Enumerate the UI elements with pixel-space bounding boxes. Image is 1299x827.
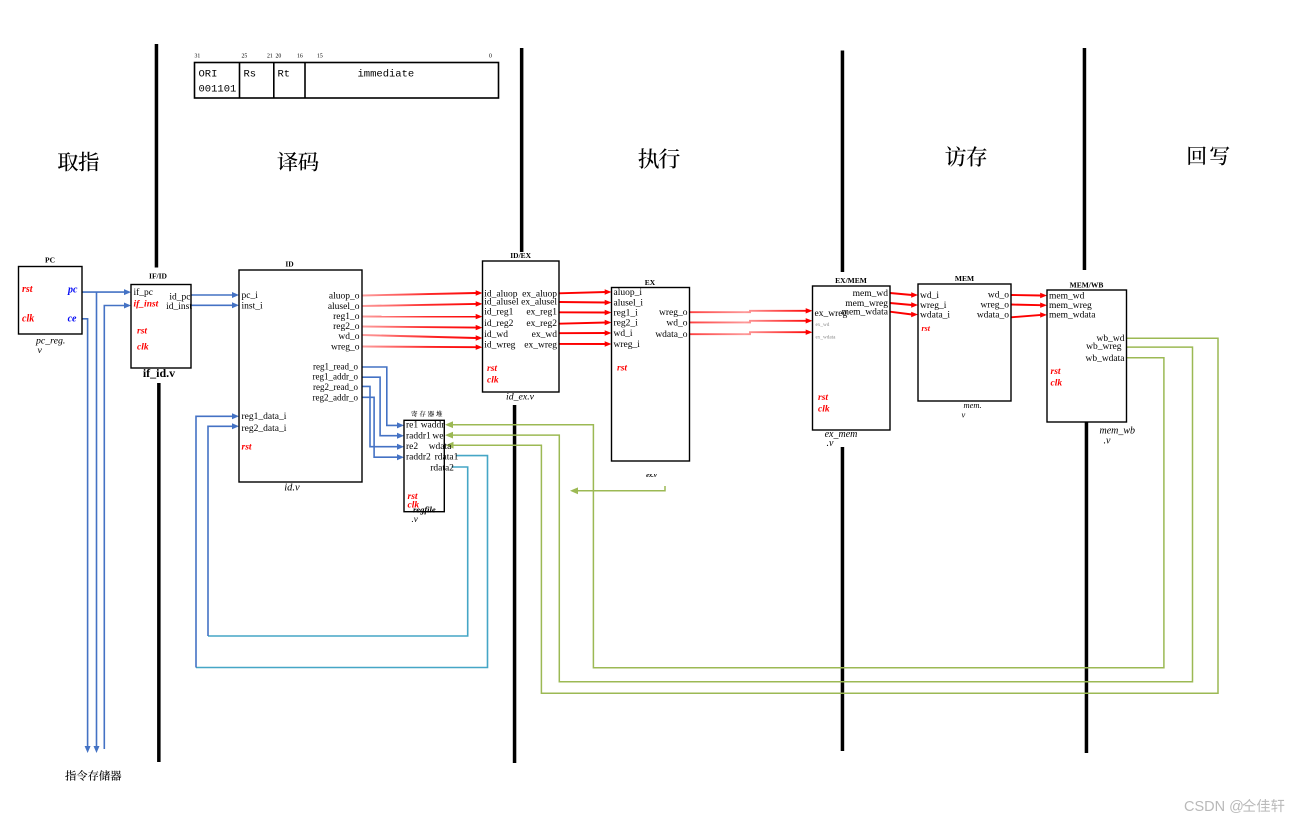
- ID pin reg2_data_i: [242, 424, 287, 434]
- wire wdata_o -> ex_wdata: [690, 330, 813, 335]
- svg-text:25: 25: [242, 54, 248, 60]
- svg-text:id_wreg: id_wreg: [484, 341, 515, 351]
- MEM/WB pin wb_wd: [1097, 334, 1125, 344]
- EX/MEM box title: [835, 276, 867, 285]
- EX pin rst: [617, 364, 627, 374]
- svg-text:reg1_data_i: reg1_data_i: [242, 412, 287, 422]
- wire ce down to instruction ROM: [82, 319, 91, 753]
- stage label 访存 (memory access): [945, 146, 986, 166]
- stage label 执行 (execute): [638, 148, 679, 168]
- ID/EX pin ex_alusel: [521, 297, 557, 307]
- PC file label pc_reg.v: [35, 335, 65, 356]
- MEM/WB pin clk: [1051, 379, 1063, 389]
- wire wb_wd -> regfile wdata (green feedback): [446, 338, 1219, 693]
- EX/MEM pin ex_wreg: [815, 309, 848, 319]
- MEM box title: [955, 274, 974, 283]
- svg-text:wreg_i: wreg_i: [920, 301, 947, 311]
- svg-text:MEM: MEM: [955, 274, 974, 283]
- svg-text:wdata: wdata: [429, 442, 452, 452]
- ID box title: [285, 260, 294, 269]
- svg-text:ex_wd: ex_wd: [816, 322, 830, 328]
- wire ex_reg1 -> reg1_i: [559, 310, 612, 315]
- EX pin reg1_i: [614, 309, 639, 319]
- ID pin wreg_o: [331, 343, 360, 353]
- ID pin inst_i: [242, 302, 263, 312]
- svg-text:EX: EX: [645, 278, 656, 287]
- wire wreg_o -> mem_wreg: [1011, 303, 1047, 308]
- regfile box title 寄存器堆: [411, 411, 442, 417]
- Rs field cell: [244, 69, 257, 81]
- IF/ID pin rst: [137, 327, 147, 337]
- regfile pin rdata1: [435, 453, 459, 463]
- svg-text:reg1_o: reg1_o: [333, 312, 360, 322]
- wire reg1_addr_o -> raddr1: [362, 377, 404, 439]
- svg-text:wd_o: wd_o: [666, 319, 687, 329]
- ID pin alusel_o: [328, 302, 360, 312]
- svg-text:ex.v: ex.v: [646, 472, 657, 479]
- svg-text:0: 0: [489, 54, 492, 60]
- svg-text:rst: rst: [137, 327, 147, 337]
- MEM/WB pin wb_wdata: [1085, 354, 1125, 364]
- svg-text:reg2_o: reg2_o: [333, 322, 360, 332]
- EX/MEM pin mem_wreg: [845, 299, 888, 309]
- EX pin wreg_o: [659, 308, 688, 318]
- stage divider line EX/MEM boundary: [841, 51, 845, 752]
- wire reg1_o -> id_reg1: [362, 314, 483, 319]
- wire rdata1 loop blue riser into reg1_data_i: [196, 413, 239, 667]
- regfile pin clk: [408, 501, 420, 511]
- svg-text:v: v: [38, 345, 43, 356]
- MEM pin wreg_o: [981, 301, 1010, 311]
- svg-text:rst: rst: [22, 284, 34, 295]
- svg-text:ORI: ORI: [199, 69, 218, 81]
- svg-text:mem_wdata: mem_wdata: [1049, 311, 1096, 321]
- MEM/WB pin rst: [1051, 367, 1061, 377]
- svg-text:id_inst: id_inst: [166, 302, 192, 312]
- wire mem_wd -> wd_i: [890, 292, 918, 297]
- regfile pin we: [432, 432, 443, 442]
- instruction format table (ORI): [195, 63, 499, 99]
- MEM pin wd_o: [988, 291, 1009, 301]
- svg-text:reg2_read_o: reg2_read_o: [313, 382, 358, 392]
- PC pin rst: [22, 284, 34, 295]
- wire ex_alusel -> alusel_i: [559, 300, 612, 305]
- ID pin reg2_read_o: [313, 382, 358, 392]
- svg-text:mem_wd: mem_wd: [1049, 292, 1085, 302]
- wire reg1_read_o -> re1: [362, 367, 404, 428]
- svg-text:v: v: [962, 410, 966, 420]
- svg-text:wd_i: wd_i: [614, 329, 633, 339]
- wire wdata_o -> mem_wdata: [1011, 312, 1047, 317]
- regfile pin wdata: [429, 442, 452, 452]
- svg-text:immediate: immediate: [358, 69, 415, 81]
- IF/ID pin id_pc: [169, 292, 190, 302]
- wire ex_wreg -> wreg_i: [559, 341, 612, 346]
- decode module ID (id): [239, 270, 362, 482]
- EX/MEM pin mem_wd: [853, 289, 889, 299]
- ID/EX pin ex_reg1: [526, 308, 557, 318]
- svg-text:rst: rst: [487, 364, 497, 374]
- svg-text:re1: re1: [406, 421, 418, 431]
- svg-text:if_pc: if_pc: [134, 287, 154, 298]
- memory access module MEM (mem): [918, 284, 1011, 401]
- svg-text:mem_wreg: mem_wreg: [1049, 301, 1092, 311]
- stray green connector arrow: [570, 486, 665, 494]
- regfile pin raddr1: [406, 432, 431, 442]
- ID/EX pin id_wreg: [484, 341, 515, 351]
- ID pin reg1_read_o: [313, 361, 358, 371]
- svg-text:reg1_read_o: reg1_read_o: [313, 361, 358, 371]
- svg-text:id_wd: id_wd: [484, 330, 508, 340]
- EX/MEM file label ex_mem.v: [825, 429, 858, 449]
- wire mem_wreg -> wreg_i: [890, 302, 918, 307]
- ID/EX box title: [510, 251, 531, 260]
- PC pin clk: [22, 314, 34, 325]
- svg-text:ex_reg2: ex_reg2: [526, 319, 557, 329]
- ID pin reg1_addr_o: [313, 371, 359, 381]
- svg-text:if_inst: if_inst: [134, 299, 159, 309]
- wire wreg_o -> id_wreg: [362, 345, 483, 350]
- IF/ID pin id_inst: [166, 302, 192, 312]
- EX/MEM pin rst: [818, 393, 828, 403]
- wire wd_o -> ex_wd: [690, 318, 813, 323]
- ID/EX pin id_aluop: [484, 290, 517, 300]
- EX pin wdata_o: [655, 330, 687, 340]
- svg-text:rdata1: rdata1: [435, 453, 459, 463]
- svg-text:wd_o: wd_o: [338, 332, 359, 342]
- wire pc -> if_pc: [82, 289, 131, 295]
- ID pin wd_o: [338, 332, 359, 342]
- regfile pin re1: [406, 421, 418, 431]
- svg-text:id_pc: id_pc: [169, 292, 190, 302]
- svg-text:31: 31: [195, 54, 201, 60]
- CSDN watermark: [1184, 799, 1284, 815]
- svg-text:rst: rst: [242, 442, 252, 452]
- svg-text:wd_o: wd_o: [988, 291, 1009, 301]
- wire pc branch down to instruction ROM: [94, 292, 100, 753]
- wire alusel_o -> id_alusel: [362, 301, 483, 306]
- svg-text:raddr1: raddr1: [406, 432, 431, 442]
- MEM file label mem.v: [962, 400, 982, 420]
- svg-text:rst: rst: [922, 324, 931, 333]
- wire id_pc -> pc_i: [191, 292, 239, 298]
- svg-text:clk: clk: [22, 314, 34, 325]
- MEM/WB pin mem_wd: [1049, 292, 1085, 302]
- svg-text:ex_wreg: ex_wreg: [815, 309, 848, 319]
- MEM pin wreg_i: [920, 301, 947, 311]
- pipeline register module MEM/WB (mem_wb): [1047, 290, 1127, 422]
- wire wb_wreg -> regfile we (green feedback): [445, 347, 1193, 682]
- svg-text:15: 15: [317, 54, 323, 60]
- ID/EX pin ex_wreg: [524, 341, 557, 351]
- svg-text:id_alusel: id_alusel: [484, 297, 519, 307]
- svg-text:alusel_o: alusel_o: [328, 302, 360, 312]
- ID pin pc_i: [242, 291, 259, 301]
- svg-text:ce: ce: [68, 314, 77, 325]
- svg-text:aluop_i: aluop_i: [614, 288, 643, 298]
- svg-text:id_ex.v: id_ex.v: [506, 392, 535, 403]
- svg-text:we: we: [432, 432, 443, 442]
- ID pin aluop_o: [329, 292, 360, 302]
- svg-text:.v: .v: [827, 438, 835, 449]
- svg-text:wb_wdata: wb_wdata: [1085, 354, 1125, 364]
- svg-text:PC: PC: [45, 256, 55, 265]
- ID pin reg1_o: [333, 312, 360, 322]
- svg-text:ex_wd: ex_wd: [532, 330, 558, 340]
- immediate field cell: [358, 69, 415, 81]
- IF/ID pin if_pc: [134, 287, 154, 298]
- svg-text:.v: .v: [1104, 436, 1112, 447]
- svg-text:CSDN @: CSDN @: [1184, 799, 1244, 815]
- IF/ID pin if_inst: [134, 299, 159, 309]
- opcode cell ORI 001101: [199, 69, 237, 96]
- svg-text:reg1_i: reg1_i: [614, 309, 639, 319]
- stage divider line ID/EX boundary: [513, 48, 524, 763]
- MEM/WB box title: [1070, 281, 1104, 290]
- svg-text:Rs: Rs: [244, 69, 257, 81]
- svg-text:clk: clk: [487, 376, 499, 386]
- regfile pin re2: [406, 442, 418, 452]
- register module PC (pc_reg): [19, 267, 83, 335]
- svg-text:reg2_addr_o: reg2_addr_o: [313, 392, 359, 402]
- svg-text:clk: clk: [1051, 379, 1063, 389]
- IF/ID pin clk: [137, 342, 149, 352]
- register file module 寄存器堆 (regfile): [404, 420, 444, 511]
- svg-text:if_id.v: if_id.v: [143, 366, 175, 380]
- svg-text:ID: ID: [285, 260, 294, 269]
- svg-text:ex_wreg: ex_wreg: [524, 341, 557, 351]
- MEM/WB pin mem_wdata: [1049, 311, 1096, 321]
- PC pin ce: [68, 314, 77, 325]
- svg-text:id.v: id.v: [284, 483, 300, 494]
- svg-text:aluop_o: aluop_o: [329, 292, 360, 302]
- ID/EX pin id_wd: [484, 330, 508, 340]
- svg-text:pc: pc: [67, 285, 78, 296]
- stage label 译码 (decode): [277, 152, 318, 172]
- EX box title: [645, 278, 656, 287]
- EX pin wd_o: [666, 319, 687, 329]
- ID/EX pin id_reg2: [484, 319, 513, 329]
- svg-text:IF/ID: IF/ID: [149, 272, 168, 281]
- ID/EX pin ex_reg2: [526, 319, 557, 329]
- pipeline register module ID/EX (id_ex): [483, 261, 560, 392]
- svg-text:001101: 001101: [199, 84, 237, 96]
- wire inst from ROM up to if_inst: [104, 303, 131, 750]
- pipeline register module EX/MEM (ex_mem): [813, 286, 891, 430]
- wire id_inst -> inst_i: [191, 302, 239, 308]
- stage divider line MEM/WB boundary: [1083, 48, 1089, 753]
- svg-text:clk: clk: [818, 405, 830, 415]
- EX pin alusel_i: [614, 299, 644, 309]
- wire ex_reg2 -> reg2_i: [559, 320, 612, 325]
- MEM/WB pin wb_wreg: [1086, 342, 1122, 352]
- MEM pin rst: [922, 324, 931, 333]
- pipeline register module IF/ID (if_id): [131, 285, 191, 369]
- EX file label ex.v: [646, 472, 657, 479]
- svg-text:id_reg1: id_reg1: [484, 308, 513, 318]
- svg-text:re2: re2: [406, 442, 418, 452]
- svg-text:wdata_o: wdata_o: [977, 311, 1009, 321]
- wire ex_aluop -> aluop_i: [559, 289, 612, 294]
- svg-text:raddr2: raddr2: [406, 453, 431, 463]
- svg-text:reg1_addr_o: reg1_addr_o: [313, 371, 359, 381]
- wire reg2_o -> id_reg2: [362, 325, 483, 330]
- wire reg2_addr_o -> raddr2: [362, 397, 404, 460]
- svg-text:mem_wdata: mem_wdata: [842, 308, 889, 318]
- stage divider line IF (取指/译码 boundary): [155, 44, 161, 762]
- svg-text:ex_wdata: ex_wdata: [816, 335, 837, 341]
- ID/EX pin ex_aluop: [522, 290, 557, 300]
- MEM/WB file label mem_wb.v: [1100, 426, 1136, 447]
- svg-text:regfile: regfile: [413, 504, 436, 514]
- svg-text:rdata2: rdata2: [430, 464, 454, 474]
- svg-text:alusel_i: alusel_i: [614, 299, 644, 309]
- svg-text:pc_i: pc_i: [242, 291, 259, 301]
- svg-text:wreg_o: wreg_o: [331, 343, 360, 353]
- ID pin reg1_data_i: [242, 412, 287, 422]
- svg-text:wdata_i: wdata_i: [920, 311, 950, 321]
- ID/EX pin clk: [487, 376, 499, 386]
- wire wd_o -> id_wd: [362, 335, 483, 341]
- ID/EX pin ex_wd: [532, 330, 558, 340]
- regfile file label regfile.v: [412, 504, 436, 524]
- Rt field cell: [278, 69, 291, 81]
- svg-text:rst: rst: [1051, 367, 1061, 377]
- PC pin pc: [67, 285, 78, 296]
- ID/EX pin id_reg1: [484, 308, 513, 318]
- MEM pin wdata_i: [920, 311, 950, 321]
- regfile pin waddr: [421, 421, 446, 431]
- svg-text:inst_i: inst_i: [242, 302, 263, 312]
- regfile pin rdata2: [430, 464, 454, 474]
- svg-text:wdata_o: wdata_o: [655, 330, 687, 340]
- wire wreg_o -> ex_wreg: [690, 308, 813, 313]
- svg-text:ex_reg1: ex_reg1: [526, 308, 557, 318]
- bit index labels 31 25 21 20 16 15 0: [195, 54, 493, 60]
- wire ex_wd -> wd_i: [559, 330, 612, 335]
- svg-text:mem_wd: mem_wd: [853, 289, 889, 299]
- svg-text:wreg_o: wreg_o: [659, 308, 688, 318]
- regfile pin rst: [408, 492, 418, 502]
- EX pin wreg_i: [614, 340, 641, 350]
- svg-text:16: 16: [297, 54, 303, 60]
- ID pin reg2_o: [333, 322, 360, 332]
- svg-text:MEM/WB: MEM/WB: [1070, 281, 1104, 290]
- svg-text:ID/EX: ID/EX: [510, 251, 531, 260]
- svg-text:reg2_data_i: reg2_data_i: [242, 424, 287, 434]
- EX/MEM pin mem_wdata: [842, 308, 889, 318]
- svg-text:20: 20: [276, 54, 282, 60]
- PC box title: [45, 256, 55, 265]
- EX/MEM pin ex_wd (dim): [816, 322, 830, 328]
- svg-text:rst: rst: [818, 393, 828, 403]
- svg-text:Rt: Rt: [278, 69, 291, 81]
- ID/EX pin id_alusel: [484, 297, 519, 307]
- ID pin reg2_addr_o: [313, 392, 359, 402]
- MEM/WB pin mem_wreg: [1049, 301, 1092, 311]
- ID/EX pin rst: [487, 364, 497, 374]
- EX pin aluop_i: [614, 288, 643, 298]
- execute module EX (ex): [612, 288, 690, 462]
- wire wb_wdata -> regfile waddr (green feedback): [445, 358, 1164, 668]
- svg-text:.v: .v: [412, 514, 418, 524]
- ID file label id.v: [284, 483, 300, 494]
- svg-text:waddr: waddr: [421, 421, 446, 431]
- wire reg2_read_o -> re2: [362, 386, 404, 449]
- stage label 取指 (fetch): [58, 152, 99, 172]
- svg-text:wd_i: wd_i: [920, 291, 939, 301]
- instruction memory label 指令存储器: [65, 770, 121, 781]
- wire aluop_o -> id_aluop: [362, 290, 483, 295]
- EX pin reg2_i: [614, 319, 639, 329]
- svg-text:clk: clk: [137, 342, 149, 352]
- wire rdata1 -> reg1_data_i (cyan loop): [196, 456, 488, 668]
- IF/ID file label if_id.v: [143, 366, 175, 380]
- IF/ID box title: [149, 272, 168, 281]
- svg-text:wb_wreg: wb_wreg: [1086, 342, 1122, 352]
- svg-text:ex_alusel: ex_alusel: [521, 297, 557, 307]
- ID/EX file label id_ex.v: [506, 392, 535, 403]
- wire mem_wdata -> wdata_i: [890, 312, 918, 318]
- MEM pin wdata_o: [977, 311, 1009, 321]
- svg-text:reg2_i: reg2_i: [614, 319, 639, 329]
- MEM pin wd_i: [920, 291, 939, 301]
- wire rdata2 loop blue riser into reg2_data_i: [208, 423, 239, 636]
- svg-text:mem.: mem.: [964, 400, 982, 410]
- svg-text:21: 21: [267, 54, 273, 60]
- wire wd_o -> mem_wd: [1011, 293, 1047, 298]
- svg-text:EX/MEM: EX/MEM: [835, 276, 867, 285]
- svg-text:wreg_i: wreg_i: [614, 340, 641, 350]
- svg-text:id_reg2: id_reg2: [484, 319, 513, 329]
- wire rdata2 -> reg2_data_i (cyan loop): [208, 467, 468, 636]
- EX/MEM pin ex_wdata (dim): [816, 335, 837, 341]
- EX/MEM pin clk: [818, 405, 830, 415]
- svg-text:rst: rst: [617, 364, 627, 374]
- ID pin rst: [242, 442, 252, 452]
- svg-text:wreg_o: wreg_o: [981, 301, 1010, 311]
- regfile pin raddr2: [406, 453, 431, 463]
- EX pin wd_i: [614, 329, 633, 339]
- stage label 回写 (write back): [1188, 146, 1229, 165]
